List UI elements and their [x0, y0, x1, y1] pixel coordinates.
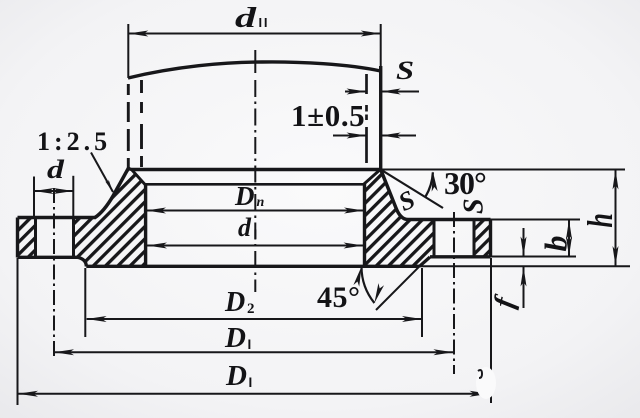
svg-text:d: d: [238, 213, 252, 242]
svg-text:I: I: [254, 227, 258, 242]
bore wall left: [144, 185, 147, 267]
left plate bottom: [18, 256, 78, 259]
svg-text:D: D: [234, 181, 255, 211]
hatch right plate block: [474, 220, 491, 257]
svg-text:30°: 30°: [444, 165, 486, 201]
bolt hole left centerline: [53, 188, 55, 358]
svg-text:D: D: [224, 322, 246, 354]
left step fillet: [77, 257, 86, 266]
dim d1 line: [147, 245, 364, 247]
right hub outer slope: [381, 170, 408, 220]
hatch right hub block: [365, 170, 435, 267]
dim 1±0.5 lines: [333, 135, 367, 137]
bolt hole right walls: [433, 220, 436, 257]
dim S lines: [345, 91, 367, 93]
white blob watermark remnant: [476, 367, 496, 399]
svg-text:I: I: [249, 375, 253, 390]
dim D2 line + ext: [87, 318, 422, 320]
dim d lines: [34, 190, 73, 192]
dim D1 mid line: [54, 351, 453, 353]
left plate top: [18, 216, 97, 219]
bolt hole left walls: [34, 218, 37, 258]
right plate top: [408, 218, 491, 221]
svg-text:2: 2: [247, 301, 255, 317]
svg-text:п: п: [257, 195, 265, 210]
weld groove 30deg line: [381, 170, 443, 209]
raised face 45 chamfer: [420, 257, 431, 266]
left flange edge: [16, 218, 19, 258]
wire pipe break curve: [128, 62, 381, 78]
svg-text:I: I: [248, 337, 252, 352]
arc 45deg: [361, 267, 374, 304]
wire pipe right outer: [379, 66, 382, 170]
hatch left plate block: [18, 218, 36, 258]
svg-text:S: S: [459, 198, 490, 214]
wire extension d2 left: [127, 24, 129, 78]
right flange edge: [489, 220, 492, 257]
flange top face: [131, 168, 381, 172]
hatch left hub block: [74, 168, 146, 266]
bore wall right: [363, 184, 366, 267]
wire pipe left inner (hidden): [140, 80, 143, 169]
wire extension d2 right: [380, 24, 382, 66]
bore chamfer edge line: [145, 183, 364, 186]
bore chamfer right: [364, 170, 380, 185]
dim h line + ext: [615, 170, 617, 267]
svg-text:d: d: [47, 155, 65, 184]
chamfer 45deg annotation line: [376, 266, 420, 310]
bolt hole right centerline: [453, 212, 455, 374]
raised face bottom: [86, 265, 419, 268]
svg-text:D: D: [225, 360, 247, 392]
svg-text:1:2.5: 1:2.5: [37, 127, 111, 156]
svg-text:d: d: [235, 2, 257, 33]
svg-text:h: h: [580, 213, 620, 228]
svg-text:S: S: [396, 57, 414, 85]
svg-text:b: b: [538, 236, 574, 252]
left hub outer slope: [95, 168, 129, 218]
dim D1 bottom line + ext: [18, 393, 490, 395]
svg-text:D: D: [224, 287, 245, 318]
svg-text:1±0.5: 1±0.5: [291, 98, 365, 133]
svg-text:II: II: [259, 15, 270, 30]
wire pipe left outer (hidden): [127, 84, 130, 169]
wire pipe right inner: [365, 74, 368, 94]
right plate bottom: [430, 255, 491, 258]
dim Dn line: [146, 210, 364, 212]
arc 30deg: [425, 172, 433, 197]
leader 1:2.5: [91, 153, 113, 193]
bore chamfer left: [132, 170, 146, 185]
dim dII line: [128, 33, 380, 35]
dim f arrows stems: [523, 228, 525, 257]
svg-text:45°: 45°: [317, 281, 361, 314]
dim b line + ext: [568, 220, 570, 257]
node axis centerline: [254, 50, 256, 73]
